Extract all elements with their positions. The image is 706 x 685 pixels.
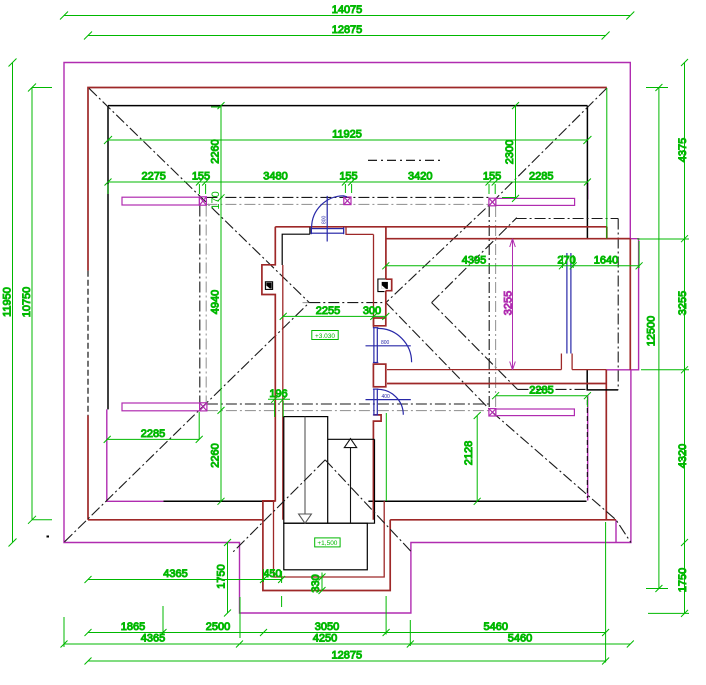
roof ridge line [309, 302, 386, 304]
wall red hidden left edge dashed [87, 271, 89, 416]
wall red bottom-right segment [390, 519, 616, 521]
dimension row3 4365/4250/5460 [61, 617, 634, 648]
dimension 330 porch wall [310, 573, 326, 595]
wall red left lower segment [87, 416, 89, 520]
svg-text:5460: 5460 [508, 633, 532, 645]
roof black eave rectangle top [108, 105, 587, 107]
svg-text:170: 170 [210, 191, 222, 209]
svg-text:10750: 10750 [21, 287, 33, 318]
door D1 swing arc [312, 196, 347, 228]
wall red core left outer [262, 227, 390, 591]
wall red core right outer upper [385, 227, 387, 279]
column marker right [378, 279, 388, 292]
dimension 4940 left [210, 198, 222, 411]
svg-text:4250: 4250 [313, 633, 337, 645]
roof valley upper from terrace [432, 218, 517, 303]
wall red core right inner upper [373, 234, 375, 327]
dimension 10750 left [21, 84, 52, 524]
svg-text:4375: 4375 [677, 138, 689, 162]
svg-text:4365: 4365 [163, 568, 187, 580]
roof black hidden right edge dashed [586, 400, 588, 498]
roof hip bottom-left [65, 303, 310, 542]
roof porch gable right line [325, 460, 412, 553]
purlin beam bottom-left magenta [122, 403, 200, 411]
dimension 4320 right [677, 370, 689, 546]
roof terrace hidden lower edge [518, 388, 588, 390]
purlin beam top-left magenta [122, 197, 199, 205]
window east wall [567, 253, 571, 354]
roof dormer dashed mark [368, 159, 443, 161]
dimension 2285 right-mid [492, 384, 591, 407]
wall magenta inner-left eave [107, 409, 164, 501]
post top-left magenta [199, 197, 206, 205]
svg-text:11925: 11925 [332, 129, 362, 141]
svg-text:155: 155 [483, 171, 501, 183]
svg-text:4365: 4365 [141, 633, 165, 645]
svg-text:3420: 3420 [408, 171, 432, 183]
elevation label +3.030 [312, 331, 338, 340]
wall red bottom-left segment [88, 519, 263, 521]
post bottom-left magenta [200, 403, 207, 411]
svg-text:2275: 2275 [141, 171, 165, 183]
svg-text:4320: 4320 [677, 444, 689, 468]
svg-text:12875: 12875 [332, 24, 363, 36]
wall red segment between bump and door2 [374, 291, 386, 326]
door D2 swing arc [378, 328, 412, 362]
post top-right magenta [489, 198, 496, 206]
dimension 2285 left-bottom [104, 412, 203, 443]
svg-text:4395: 4395 [462, 254, 486, 266]
svg-text:196: 196 [269, 388, 287, 400]
door D2 right wall frame [373, 328, 378, 363]
svg-text:2285: 2285 [141, 428, 165, 440]
svg-text:2285: 2285 [529, 384, 553, 396]
svg-text:450: 450 [263, 568, 281, 580]
dimension 1750 right [648, 543, 689, 617]
purlin dash pair bottom [207, 403, 489, 405]
wall red top inner face left of door [282, 227, 310, 265]
dimension 2260 upper-left [210, 102, 225, 201]
stray dot mark [47, 536, 50, 538]
svg-text:+3.030: +3.030 [315, 333, 335, 340]
dimension 1750 porch left [216, 539, 232, 617]
wall magenta inner-right upper segment [587, 183, 589, 200]
svg-text:3050: 3050 [315, 621, 339, 633]
stair down arrow [299, 417, 312, 524]
svg-text:4940: 4940 [210, 290, 222, 314]
door D1 center line [326, 196, 328, 242]
wall red core left inner [282, 265, 284, 520]
roof terrace hidden top edge [516, 218, 619, 220]
svg-text:2260: 2260 [210, 139, 222, 163]
dimension 4375 right [677, 59, 689, 242]
svg-text:12875: 12875 [332, 650, 363, 662]
dimension 11950 left [2, 59, 17, 547]
wall red window jamb right [571, 354, 573, 370]
wall red east terrace wall [605, 370, 607, 520]
purlin beam top-right magenta [496, 198, 575, 205]
dimension 3255 right green [637, 239, 689, 374]
dimension chain top 2275/155/3480/155/3420/155/2285 [105, 171, 591, 195]
wall red core right bump [386, 279, 392, 291]
door D3 swing arc [378, 389, 404, 415]
door D1 top wall leaf [311, 227, 343, 234]
wall red pier between doors [373, 364, 385, 387]
svg-text:2128: 2128 [463, 441, 475, 465]
purlin dash pair top [206, 196, 489, 198]
svg-text:5460: 5460 [484, 621, 508, 633]
svg-text:2500: 2500 [206, 621, 230, 633]
svg-text:800: 800 [381, 340, 390, 346]
dimension 12875 top [84, 24, 610, 40]
extension line green right edge [606, 88, 608, 239]
svg-text:400: 400 [382, 394, 391, 400]
wall red window jamb left [560, 354, 562, 370]
wall magenta inner-right lower segment [587, 396, 589, 501]
stair up arrow [344, 439, 356, 524]
svg-text:2255: 2255 [316, 305, 340, 317]
svg-text:2300: 2300 [504, 140, 516, 164]
dimension row2 1865/2500/3050/5460 [85, 596, 610, 646]
wall red wing top edge [386, 238, 630, 240]
svg-text:2285: 2285 [529, 171, 553, 183]
dimension 4365/450 row1 [85, 568, 286, 607]
roof black eave right lower [587, 370, 618, 390]
wall red wing bottom inner left part [387, 369, 561, 371]
roof ridge gray stub [303, 302, 310, 304]
wall outer-red house outline [88, 88, 607, 271]
stair landing box [284, 523, 368, 570]
dimension 2128 [463, 412, 481, 505]
door D2 axis line [366, 345, 411, 347]
roof black eave bottom [164, 500, 275, 502]
extension line green at apex [385, 413, 387, 501]
svg-text:800: 800 [322, 215, 328, 224]
purlin dash pair right [488, 206, 490, 409]
post top-middle magenta [344, 197, 351, 205]
wall red top-right step [607, 227, 631, 239]
svg-text:1865: 1865 [121, 621, 145, 633]
dimension row4 12875 [85, 522, 610, 665]
wall magenta drop at bottom-right corner [615, 520, 617, 543]
wall red top inner face right of door [346, 227, 373, 234]
roof terrace hidden right edge [617, 219, 619, 390]
svg-text:155: 155 [192, 171, 210, 183]
svg-text:3255: 3255 [503, 291, 515, 315]
dimension 12500 right [646, 84, 669, 592]
roof valley lower from terrace [432, 303, 518, 390]
dimension 2255/300 core [280, 305, 390, 320]
svg-text:300: 300 [363, 305, 381, 317]
roof black eave left [107, 106, 109, 410]
purlin dash pair left [199, 206, 201, 403]
wall red cap below door3 [373, 415, 381, 520]
svg-text:14075: 14075 [332, 4, 363, 16]
svg-text:270: 270 [557, 254, 575, 266]
door D3 right wall frame [373, 389, 378, 415]
purlin beam bottom-right magenta [496, 409, 575, 416]
wall red wing bottom outer [387, 383, 606, 385]
wall red wing bottom inner right part [572, 369, 606, 371]
wall red porch inner bottom [274, 501, 385, 577]
stair upper flight box [284, 417, 328, 524]
wall red top interior [275, 226, 607, 228]
svg-text:3255: 3255 [677, 291, 689, 315]
dimension 14075 top [60, 4, 634, 20]
column marker left [265, 282, 272, 290]
roof black eave right upper [586, 106, 588, 239]
door D3 axis line [366, 399, 411, 401]
svg-text:2260: 2260 [210, 443, 222, 467]
svg-text:1750: 1750 [216, 564, 228, 588]
svg-text:11950: 11950 [2, 287, 14, 317]
svg-text:1750: 1750 [677, 568, 689, 592]
svg-text:330: 330 [310, 574, 322, 592]
wall red wing east edge [629, 239, 631, 370]
roof porch gable left line [233, 460, 325, 552]
dimension 2300 right interior [502, 102, 519, 202]
dimension 11925 [104, 129, 591, 145]
svg-text:155: 155 [339, 171, 357, 183]
svg-text:+1,500: +1,500 [317, 540, 337, 547]
elevation label +1,500 [315, 538, 340, 547]
dimension 2260 lower-left [210, 407, 225, 505]
stair lower flight box [328, 439, 375, 523]
svg-text:12500: 12500 [646, 316, 658, 347]
dimension 3255 magenta terrace [503, 239, 516, 370]
dimension 196 wall [268, 388, 290, 417]
dimension 4395/270/1640 wing [382, 241, 642, 269]
roof hip top-right [386, 88, 607, 303]
roof hip top-left [89, 88, 309, 302]
svg-text:3480: 3480 [263, 171, 287, 183]
post bottom-right magenta [489, 409, 496, 416]
svg-text:1640: 1640 [594, 254, 618, 266]
wall outer-magenta boundary [64, 63, 639, 614]
roof hip bottom-right [386, 303, 631, 543]
